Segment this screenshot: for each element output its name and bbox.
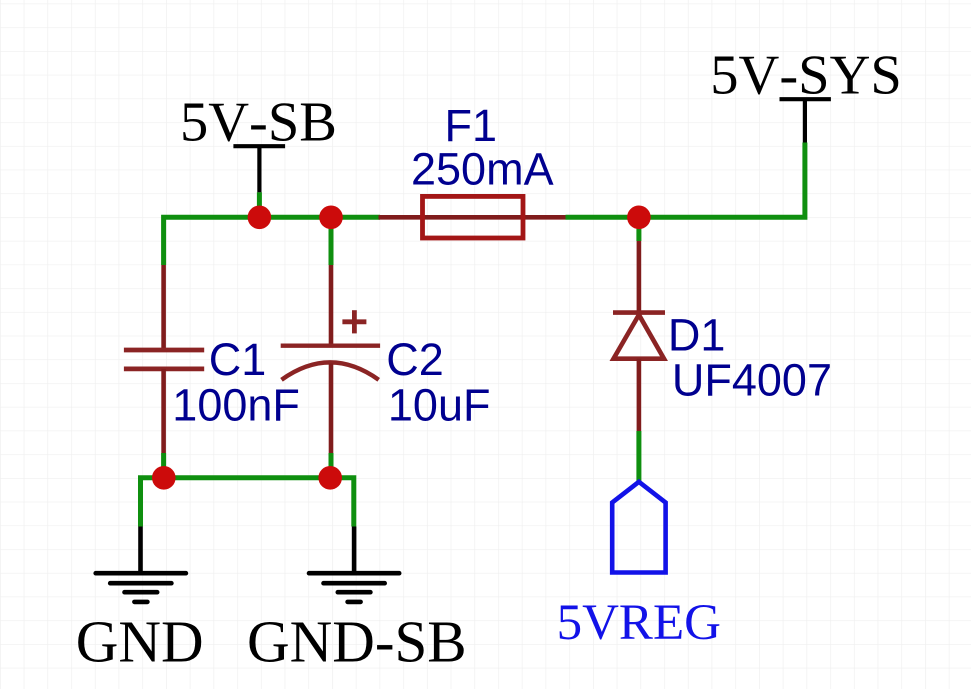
wire 5V-SB power stub <box>257 192 262 217</box>
label GND-SB <box>247 609 467 675</box>
power port 5V-SYS <box>780 99 831 142</box>
svg-text:100nF: 100nF <box>172 379 300 430</box>
fuse F1 <box>379 196 566 238</box>
svg-text:C1: C1 <box>209 334 267 385</box>
capacitor C2 (polarized) <box>281 265 380 453</box>
junction at C1 ground <box>152 466 176 490</box>
svg-text:C2: C2 <box>386 334 444 385</box>
value UF4007 <box>672 355 832 406</box>
svg-text:5V-SYS: 5V-SYS <box>710 45 902 107</box>
wire C2 bottom stub <box>329 453 334 478</box>
wire main rail right of fuse to 5V-SYS corner <box>566 143 805 218</box>
svg-text:5VREG: 5VREG <box>557 595 721 651</box>
svg-text:5V-SB: 5V-SB <box>180 91 337 153</box>
label 5V-SYS <box>710 45 902 107</box>
value 100nF <box>172 379 300 430</box>
net port 5VREG <box>612 482 665 573</box>
junction at D1 tap <box>627 206 651 230</box>
label D1 <box>668 310 726 361</box>
svg-text:UF4007: UF4007 <box>672 355 832 406</box>
junction at C2 ground <box>318 466 342 490</box>
junction at C2 tap <box>319 206 343 230</box>
ground GND <box>96 527 186 602</box>
svg-text:D1: D1 <box>668 310 726 361</box>
diode D1 <box>613 241 665 431</box>
svg-text:GND: GND <box>76 609 204 675</box>
power port 5V-SB <box>233 146 285 192</box>
wire ground rail with corners to GND and GND-SB <box>141 478 354 527</box>
svg-text:10uF: 10uF <box>388 379 491 430</box>
label C2 <box>386 334 444 385</box>
value 250mA <box>411 144 554 195</box>
wire net 5V-SB: corner from C1 branch to main rail <box>164 217 380 265</box>
ground GND-SB <box>309 527 399 602</box>
label GND <box>76 609 204 675</box>
wire C1 bottom stub <box>161 453 166 478</box>
label C1 <box>209 334 267 385</box>
wire D1 anode to 5VREG port <box>636 431 641 482</box>
label 5VREG <box>557 595 721 651</box>
value 10uF <box>388 379 491 430</box>
wire D1 top stub <box>636 217 641 241</box>
svg-text:250mA: 250mA <box>411 144 554 195</box>
junction at 5V-SB tap <box>248 206 272 230</box>
wire C2 top stub <box>329 217 334 265</box>
svg-text:GND-SB: GND-SB <box>247 609 467 675</box>
capacitor C1 <box>124 265 204 453</box>
label F1 <box>445 100 498 151</box>
label 5V-SB <box>180 91 337 153</box>
